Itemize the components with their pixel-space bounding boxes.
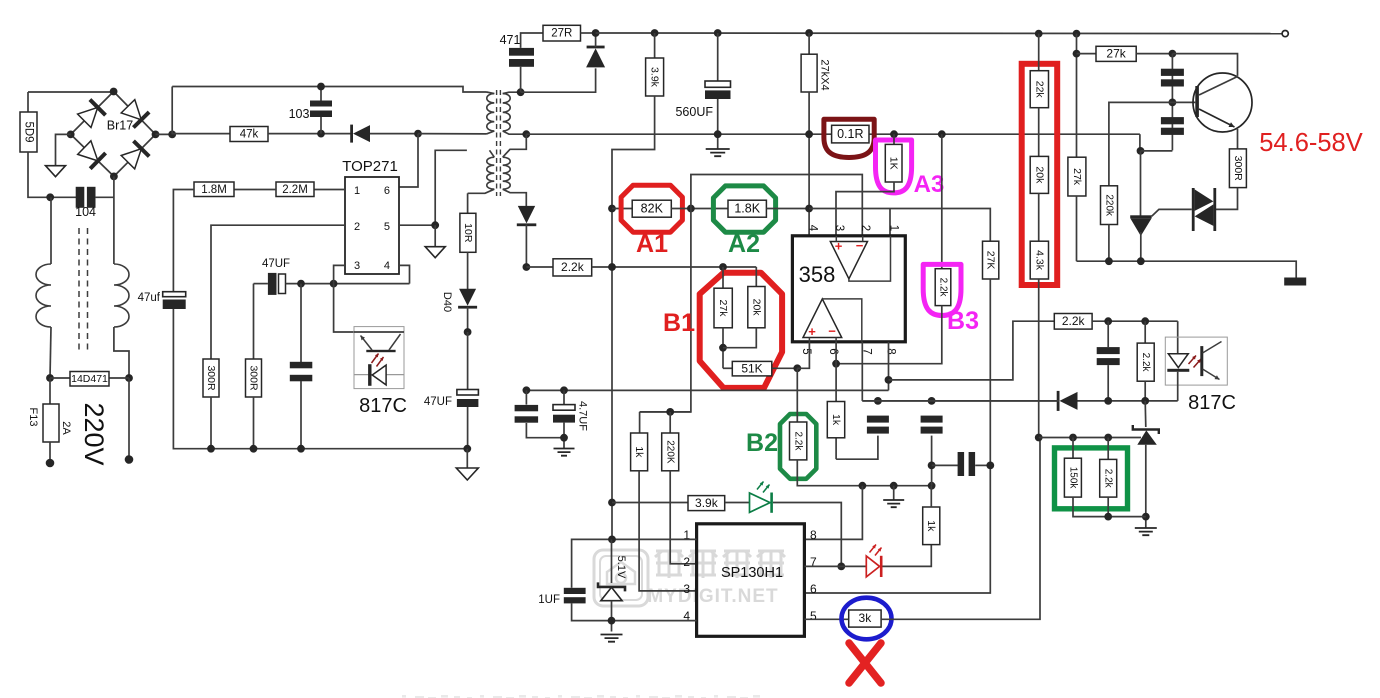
- wire fuse bottom to AC terminal: [49, 442, 51, 463]
- resistor 82K: [632, 200, 671, 217]
- wire bias node to opto: [334, 284, 354, 332]
- LED red arrow b: [875, 548, 882, 556]
- sp pin4 label: [683, 609, 690, 623]
- svg-text:27k: 27k: [717, 300, 729, 318]
- resistor 300R a: [203, 359, 219, 397]
- node bias node a: [297, 280, 305, 288]
- wire opto2 led column: [1177, 321, 1179, 354]
- node bridge bottom: [110, 173, 118, 181]
- node cap103 bottom: [317, 130, 325, 138]
- capacitor 104: [76, 187, 96, 208]
- capacitor 47UF bias: [268, 273, 286, 295]
- wire comp b bottom: [931, 436, 933, 486]
- resistor 1.8K: [728, 200, 766, 217]
- wire 300R to TVS: [1216, 188, 1238, 210]
- svg-text:103: 103: [289, 107, 310, 121]
- sp pin3 label: [683, 582, 690, 596]
- label 47UF aux: [424, 396, 452, 408]
- node pin4 zener: [608, 617, 616, 625]
- node junction DC bus: [168, 131, 176, 139]
- choke core dashes: [79, 228, 88, 352]
- wire B2 bottom row: [797, 460, 931, 486]
- annotation ring B1: [700, 273, 782, 388]
- pin 5 label TOP271: [384, 221, 390, 233]
- svg-text:471: 471: [500, 33, 521, 47]
- opto2 light arrow a: [1189, 356, 1197, 365]
- capacitor comp a: [867, 416, 889, 434]
- pin5 label 358: [800, 348, 812, 354]
- wire AC neutral lead: [128, 378, 130, 460]
- node mid rail 27kX4: [805, 130, 813, 138]
- resistor 20k B1: [748, 287, 765, 328]
- resistor 2.2k B3: [935, 269, 951, 306]
- choke left winding: [36, 264, 51, 327]
- node scr top: [1137, 147, 1145, 155]
- wire D40 to opto node: [467, 307, 469, 332]
- wire 220k bottom: [1108, 225, 1110, 262]
- wire 27k v bottom: [1076, 196, 1078, 261]
- svg-text:20k: 20k: [1033, 166, 1045, 184]
- svg-text:TOP271: TOP271: [342, 158, 398, 175]
- wire 5D9 bottom lead: [28, 152, 76, 197]
- wire 1k left bottom to sp pin3: [639, 471, 697, 591]
- wire row412: [640, 411, 691, 413]
- resistor 1K sense: [885, 144, 902, 182]
- svg-text:1k: 1k: [633, 446, 645, 458]
- diode D40: [458, 289, 477, 309]
- wire 3.9k top lead: [654, 33, 656, 58]
- wire base node to 220k: [1109, 102, 1173, 185]
- pin 2 label TOP271: [354, 221, 360, 233]
- wire zener right to gnd row: [1145, 445, 1147, 528]
- resistor 220k right: [1101, 186, 1118, 225]
- terminal output positive: [1282, 30, 1288, 36]
- opamp A minus: [856, 238, 864, 253]
- wire bridge bottom down: [113, 176, 115, 264]
- wire row400 right of diode: [1078, 400, 1178, 402]
- wire diode column cap: [525, 390, 527, 404]
- wire scr column: [1140, 151, 1142, 217]
- resistor 2.2k fb: [553, 259, 592, 276]
- wire red led to 1k bottom: [883, 545, 932, 567]
- svg-text:2.2k: 2.2k: [1103, 469, 1114, 489]
- opamp B plus: [808, 324, 816, 339]
- node cap103 top: [317, 83, 325, 91]
- wire DC bus to 47k: [172, 133, 230, 135]
- wire 1k right bottom: [835, 438, 837, 459]
- wire 471 to top rail: [521, 33, 543, 48]
- label 358: [799, 262, 836, 287]
- label 2A: [60, 421, 72, 435]
- resistor 27kX4: [801, 54, 817, 92]
- wire 22k top lead: [1038, 34, 1040, 71]
- resistor 300R out: [1229, 149, 1246, 188]
- node bottom rail scr: [1137, 257, 1145, 265]
- resistor 2.2k green: [1100, 459, 1117, 497]
- label B1: [663, 309, 695, 337]
- svg-text:1k: 1k: [830, 414, 842, 426]
- transformer secondary bottom winding: [503, 157, 511, 189]
- node bias node b: [330, 280, 338, 288]
- capacitor bias filter: [290, 362, 313, 382]
- wire rect diode to rail: [595, 33, 597, 47]
- wire sec filter a bottom: [526, 423, 564, 438]
- wire 51K junction down to B2: [796, 368, 798, 422]
- node sec top junction: [517, 88, 525, 96]
- node mid rail 1K: [890, 130, 898, 138]
- svg-text:1: 1: [354, 185, 360, 197]
- SCR triangle: [1130, 218, 1152, 236]
- label A2: [728, 230, 760, 258]
- annotation ring 150k22k: [1055, 448, 1128, 509]
- zener 5.1V triangle: [601, 587, 622, 600]
- node row412 220K: [666, 408, 674, 416]
- svg-text:27k: 27k: [1071, 168, 1083, 186]
- wire 47UF aux to rail: [467, 407, 469, 449]
- wire 47UF right to pin4 run: [286, 283, 410, 285]
- resistor 10R: [460, 213, 476, 252]
- ground 560UF: [706, 149, 730, 156]
- wire bridge left to ground: [56, 134, 71, 165]
- svg-text:2A: 2A: [60, 421, 72, 435]
- pin 3 label TOP271: [354, 260, 360, 272]
- watermark text mydigit: [647, 586, 778, 607]
- pin4 label 358: [807, 225, 819, 232]
- sp pin2 label: [683, 555, 690, 569]
- wire bias cap to rail: [300, 381, 302, 449]
- wire scr node to caps: [1141, 150, 1173, 152]
- wire 27kX4 bottom: [808, 92, 810, 236]
- wire pin1 row: [314, 189, 345, 191]
- svg-text:817C: 817C: [359, 395, 407, 417]
- zener 5.1V bar: [598, 582, 625, 591]
- node B1 27k top: [719, 263, 727, 271]
- label D40: [441, 292, 453, 312]
- wire hcap left stub: [932, 464, 958, 466]
- node 2.2kg top: [1104, 434, 1112, 442]
- wire 47UF down to 300R b: [253, 284, 255, 359]
- resistor 27K right: [983, 241, 999, 279]
- wire drain to pin6: [399, 134, 418, 187]
- label Br17: [107, 119, 133, 133]
- node rail bias cap: [297, 445, 305, 453]
- node 27k h junction: [1073, 50, 1081, 58]
- svg-text:27kX4: 27kX4: [819, 59, 831, 90]
- wire zener to pin4 row: [611, 601, 613, 632]
- opamp B in6 stub: [835, 338, 837, 342]
- transformer secondary top winding: [503, 94, 511, 131]
- node caps row a: [874, 397, 882, 405]
- pin 4 label TOP271: [384, 260, 390, 272]
- zener right bar: [1133, 425, 1159, 434]
- optocoupler 817C no1 box: [354, 327, 404, 389]
- wire 27R to diode node: [581, 32, 596, 34]
- svg-text:2.2k: 2.2k: [793, 431, 804, 451]
- node B1 mid junction: [719, 344, 727, 352]
- wire base to transistor: [1172, 101, 1195, 103]
- pin1 label 358: [888, 225, 900, 231]
- sp pin1 label: [683, 528, 690, 542]
- wire 1K to pin3 opamp: [836, 182, 894, 236]
- IC TOP271 box: [345, 177, 399, 274]
- svg-text:3: 3: [683, 582, 690, 596]
- wire 300R b bottom: [253, 397, 255, 449]
- svg-text:27K: 27K: [985, 251, 997, 270]
- svg-text:1k: 1k: [925, 520, 937, 532]
- capacitor 103: [310, 101, 332, 118]
- node 14D471 right: [125, 374, 133, 382]
- pin2 label 358: [859, 225, 871, 231]
- bridge diode D-topright: [121, 100, 149, 128]
- label B2: [746, 429, 778, 457]
- bridge diode D-bottomleft: [78, 141, 106, 169]
- svg-text:2.2M: 2.2M: [282, 184, 308, 196]
- node rail 3.9k: [651, 29, 659, 37]
- wire 27K bottom long: [804, 279, 990, 593]
- capacitor 1UF: [564, 588, 586, 604]
- wire 5D9 top lead: [27, 92, 29, 112]
- svg-text:2.2k: 2.2k: [938, 278, 949, 298]
- svg-text:6: 6: [827, 348, 839, 354]
- wire 5D9 top to bridge top: [28, 91, 114, 93]
- svg-text:3.9k: 3.9k: [695, 496, 719, 510]
- label 47UF bias: [262, 258, 290, 270]
- opto2 transistor bar: [1200, 346, 1203, 376]
- pin8 label 358: [885, 348, 897, 354]
- node 2.2k column junction: [608, 263, 616, 271]
- node A1A2 junction: [687, 205, 695, 213]
- node 150k top: [1069, 434, 1077, 442]
- opto2 LED triangle: [1168, 354, 1188, 368]
- svg-text:5: 5: [810, 609, 817, 623]
- annotation ring B2: [780, 414, 816, 479]
- svg-text:51K: 51K: [741, 361, 762, 375]
- wire top DC rail to transformer: [172, 87, 486, 93]
- svg-text:220V: 220V: [79, 402, 109, 465]
- node fbrow 2.2kv: [1141, 317, 1149, 325]
- watermark logo box: [594, 550, 648, 606]
- node base caps mid: [1169, 99, 1177, 107]
- svg-text:4: 4: [384, 260, 390, 272]
- transistor Q1 collector: [1199, 77, 1238, 96]
- wire 4.7UF bottom: [563, 423, 565, 448]
- capacitor comp b: [921, 416, 943, 434]
- wire led row b: [725, 502, 749, 504]
- svg-text:1: 1: [888, 225, 900, 231]
- wire 4.7UF top lead: [563, 390, 565, 404]
- wire pin5 lead: [399, 224, 435, 226]
- node junction cap104 left: [46, 193, 54, 201]
- LED red arrow a: [870, 545, 877, 553]
- wire 10R top lead: [467, 193, 469, 213]
- optocoupler 817C no2 box: [1165, 337, 1227, 385]
- wire bias winding bottom stub: [468, 189, 495, 193]
- node hcap junction right: [986, 462, 994, 470]
- annotation ring A1: [621, 185, 682, 232]
- wire row390: [526, 389, 888, 391]
- IC SP130H1 box: [697, 524, 805, 637]
- svg-text:−: −: [828, 324, 836, 339]
- svg-text:B2: B2: [746, 429, 778, 457]
- wire 20k B1 top lead: [755, 267, 757, 287]
- svg-text:82K: 82K: [641, 201, 664, 215]
- wire row400 left of diode: [862, 400, 1059, 402]
- node primary rail end: [463, 445, 471, 453]
- wire bias winding top stub: [490, 150, 495, 157]
- node rail 300Ra: [207, 445, 215, 453]
- diode clamp D1: [350, 125, 370, 143]
- wire sec bot top stub: [503, 134, 527, 157]
- wire pin8 to right riser: [889, 321, 1055, 380]
- opamp B triangle: [803, 299, 842, 338]
- opto1 LED triangle: [372, 365, 386, 385]
- annotation ring A2: [713, 186, 775, 232]
- svg-text:8: 8: [885, 348, 897, 354]
- svg-text:47uf: 47uf: [138, 292, 161, 304]
- wire cap103 lower stub: [320, 117, 322, 134]
- node row390 at 4.7UF: [560, 386, 568, 394]
- diode secondary rect top: [586, 46, 605, 68]
- capacitor sec filter a: [515, 405, 539, 423]
- node pin7 row junction: [837, 563, 845, 571]
- wire choke left top lead: [50, 197, 52, 264]
- wire sp pin1 row: [572, 539, 697, 587]
- capacitor 47uf bulk: [163, 292, 186, 309]
- wire fb cap lead: [1107, 321, 1109, 347]
- svg-text:2: 2: [859, 225, 871, 231]
- svg-text:2.2k: 2.2k: [1140, 353, 1151, 373]
- wire 47uf to rail: [173, 309, 467, 449]
- wire fuse top lead: [49, 378, 51, 404]
- svg-text:358: 358: [799, 262, 836, 287]
- capacitor base a: [1161, 69, 1184, 87]
- choke right winding: [114, 264, 129, 327]
- wire 14D471 right stub: [109, 377, 129, 379]
- wire 2.2k to B1 top: [592, 266, 757, 268]
- svg-text:27R: 27R: [551, 28, 572, 40]
- svg-text:8: 8: [810, 528, 817, 542]
- svg-text:1.8K: 1.8K: [734, 201, 760, 215]
- svg-text:560UF: 560UF: [675, 105, 713, 119]
- wire rail end ground lead: [466, 449, 468, 468]
- node led row left: [608, 499, 616, 507]
- wire opto2 led bottom: [1177, 372, 1179, 401]
- resistor 0.1R: [832, 125, 869, 143]
- wire 3k right long: [881, 438, 1040, 620]
- wire 560UF bottom lead: [717, 99, 719, 149]
- svg-text:F13: F13: [27, 408, 39, 427]
- annotation ring 22k20k43k: [1022, 64, 1057, 285]
- resistor 2.2M: [276, 182, 314, 197]
- wire 10R to D40: [467, 252, 469, 290]
- node rail 27kX4: [805, 29, 813, 37]
- transformer primary bias winding: [487, 157, 494, 189]
- wire rect2 to 2.2k row: [525, 224, 527, 267]
- svg-text:300R: 300R: [205, 365, 217, 391]
- svg-text:2: 2: [683, 555, 690, 569]
- wire 150k bottom row: [1073, 497, 1146, 516]
- transistor Q1 base bar: [1195, 86, 1199, 117]
- node pin1 zener: [608, 536, 616, 544]
- transistor Q1 emitter: [1199, 109, 1235, 127]
- wire 27k h left stub: [1077, 53, 1097, 55]
- wire scr to bottom rail: [1140, 232, 1142, 261]
- node pin8 junction: [885, 376, 893, 384]
- wire A1A2 down to 1k row: [640, 209, 691, 412]
- pin 6 label TOP271: [384, 185, 390, 197]
- wire 2.2kg top lead: [1107, 438, 1109, 460]
- opamp A in3 stub: [835, 236, 837, 242]
- wire fb row to 27K: [809, 209, 990, 242]
- transformer primary top winding: [487, 94, 495, 131]
- label 27kX4 side: [819, 59, 831, 90]
- wire B3 bottom to pin6 row: [836, 306, 942, 364]
- opamp A in2 stub: [862, 236, 864, 242]
- LED green arrow a: [757, 482, 764, 490]
- node gnd 4.7UF: [560, 434, 568, 442]
- wire diode to drain node: [370, 133, 418, 135]
- node top150k row left: [1035, 434, 1043, 442]
- wire pin1 opamp lead: [889, 209, 891, 236]
- svg-text:A2: A2: [728, 230, 760, 258]
- node row390 at diode column: [523, 386, 531, 394]
- pin7 label 358: [861, 348, 873, 354]
- wire zener right column: [1144, 401, 1147, 427]
- sp pin7 label: [810, 555, 817, 569]
- svg-text:4.7UF: 4.7UF: [577, 401, 589, 431]
- wire 1.8M left and down: [173, 190, 194, 292]
- wire bottom out rail: [1077, 261, 1297, 277]
- svg-text:2: 2: [354, 221, 360, 233]
- svg-text:0.1R: 0.1R: [837, 127, 863, 141]
- resistor 2.2k B2: [790, 422, 807, 460]
- transistor Q1 circle: [1193, 73, 1252, 132]
- resistor 27R: [543, 25, 581, 41]
- resistor 1k bottom: [923, 507, 940, 545]
- wire sp pin5 row: [804, 618, 848, 620]
- ground b2row: [883, 500, 904, 507]
- wire 22k to 20k: [1038, 108, 1040, 157]
- wire TVS to SCR gate: [1152, 209, 1192, 216]
- IC 358 box: [792, 236, 905, 342]
- wire led row c: [773, 503, 841, 567]
- wire cap103 riser: [320, 87, 322, 102]
- opto1 light arrow a: [372, 354, 379, 364]
- label 220V: [79, 402, 109, 465]
- watermark bottom strip: [402, 695, 760, 698]
- svg-text:5.1V: 5.1V: [615, 556, 627, 579]
- opto1 collector line: [389, 334, 401, 350]
- svg-text:47UF: 47UF: [262, 258, 290, 270]
- opamp A triangle: [830, 242, 867, 279]
- wire drain node to primary: [418, 133, 487, 135]
- svg-text:47k: 47k: [240, 129, 259, 141]
- wire comp a bottom: [836, 436, 878, 460]
- resistor 220K: [662, 433, 679, 471]
- node sec mid junction: [522, 130, 530, 138]
- wire 1.8K to pin4 column: [766, 208, 809, 210]
- wire hcap right stub: [975, 464, 990, 466]
- wire 560UF top lead: [717, 33, 719, 81]
- wire pin5 opamp lead: [797, 342, 809, 369]
- wire 1k left top lead: [639, 412, 641, 433]
- svg-text:6: 6: [384, 185, 390, 197]
- wire 2.2kv top lead: [1144, 321, 1146, 343]
- wire choke left bottom lead: [50, 327, 51, 378]
- label 54.6-58V: [1259, 129, 1363, 157]
- svg-text:104: 104: [75, 205, 96, 219]
- resistor 20k: [1030, 156, 1048, 193]
